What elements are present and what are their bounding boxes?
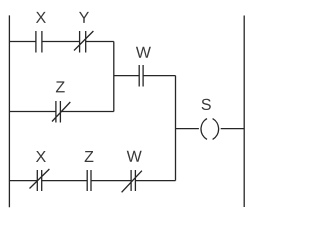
left power rail [8, 15, 10, 207]
wire: Z parallel branch, left rail to contact Z [9, 111, 56, 113]
wire: coil rung, node B vertical to coil S [176, 128, 199, 130]
wire: bottom rung, between contact X and contact Z [42, 180, 87, 182]
wire: rung 1, between contact X and contact Y [42, 41, 80, 43]
wire: W rung, contact W to node B vertical [143, 75, 175, 77]
wire: node A vertical branch down to Z branch [113, 42, 115, 112]
wire: coil rung, coil S to right rail [221, 128, 245, 130]
wire: bottom rung, between contact Z and contact W [91, 180, 131, 182]
wire: bottom rung, contact W to node B vertical [135, 180, 175, 182]
label Z (parallel branch contact Z) [56, 81, 65, 92]
label Z (bottom rung contact Z) [85, 151, 94, 162]
contact Z (NC) parallel branch [52, 101, 70, 123]
label S (output coil S) [202, 99, 211, 110]
contact Z (NO) bottom rung [87, 170, 91, 191]
contact W (NO) middle rung [139, 65, 143, 87]
wire: Z parallel branch, contact Z to node A vertical [60, 111, 113, 113]
wire: bottom rung, left rail to contact X [9, 180, 37, 182]
contact W (NC) bottom rung [122, 170, 142, 192]
label X (rung 1 contact X) [36, 12, 46, 23]
label X (bottom rung contact X) [36, 151, 46, 162]
contact Y (NC) rung 1 [74, 31, 93, 53]
contact X (NO) rung 1 [36, 31, 42, 53]
label W (bottom rung contact W) [127, 151, 142, 162]
coil S output [201, 119, 219, 140]
wire: rung 1, contact Y to node A corner [86, 41, 114, 43]
wire: rung 1, left rail to contact X [9, 41, 36, 43]
label Y (rung 1 contact Y) [79, 12, 89, 23]
wire: W rung, node A vertical to contact W [114, 75, 139, 77]
label W (middle rung contact W) [136, 47, 151, 58]
right power rail [243, 16, 245, 208]
wire: node B vertical branch down to bottom rung [175, 76, 177, 181]
contact X (NC) bottom rung [30, 169, 50, 191]
